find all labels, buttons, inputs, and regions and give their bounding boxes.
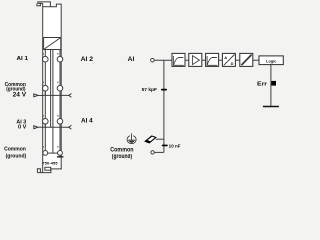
svg-text:AI: AI <box>128 56 135 63</box>
wire stubs rect to row1 <box>45 50 60 57</box>
block limiter 1 <box>172 53 185 66</box>
svg-text:Err: Err <box>257 81 267 87</box>
ground stub under row4 right <box>59 155 61 156</box>
wire AI to block chain <box>154 59 172 61</box>
svg-text:10 nF: 10 nF <box>169 143 181 148</box>
module body outline <box>37 2 62 173</box>
terminal circles row 3 <box>43 119 63 125</box>
svg-text:24 V: 24 V <box>13 91 27 98</box>
block limiter 2 <box>206 53 219 66</box>
svg-text:AI 1: AI 1 <box>17 56 29 62</box>
block A/D converter <box>222 53 235 66</box>
wire row3 to row4 <box>45 124 60 151</box>
shield plate symbol <box>144 135 164 143</box>
24V feed arrow <box>34 94 43 97</box>
common terminal <box>151 151 154 154</box>
svg-text:(ground): (ground) <box>112 154 132 160</box>
svg-text:Common: Common <box>110 147 133 153</box>
wire <box>202 59 206 61</box>
terminal circles row 1 <box>43 56 63 62</box>
svg-text:D: D <box>231 61 234 66</box>
wire <box>185 59 189 61</box>
wire row2 to row3 <box>45 91 60 119</box>
wire common to rail <box>154 151 164 153</box>
ground bar <box>57 156 63 157</box>
wire <box>219 59 223 61</box>
module label rect with diagonal <box>44 38 61 50</box>
wire row1 to row2 <box>45 62 60 86</box>
row4 link wire <box>48 152 58 154</box>
svg-text:AI 4: AI 4 <box>81 118 93 125</box>
terminal number ticks <box>43 53 59 148</box>
internal ground bar <box>263 106 279 108</box>
wire vertical rail <box>163 60 165 152</box>
24V jumper contact fork right <box>69 94 72 98</box>
svg-text:Logic: Logic <box>266 60 276 64</box>
svg-text:A: A <box>224 55 227 60</box>
capacitor 57kpF <box>161 89 167 91</box>
wire logic down <box>270 65 272 107</box>
0V jumper contact fork right <box>69 125 72 129</box>
wire <box>235 59 239 61</box>
svg-text:750-455: 750-455 <box>42 161 57 165</box>
0V feed arrow <box>34 126 43 129</box>
AI terminal <box>151 58 155 62</box>
24V internal line <box>43 91 69 96</box>
internal bus wires <box>51 50 53 154</box>
svg-text:57 kpF: 57 kpF <box>142 87 157 93</box>
svg-text:(ground): (ground) <box>6 154 27 160</box>
capacitor 10nF <box>162 145 168 147</box>
svg-text:AI 2: AI 2 <box>81 56 94 63</box>
block logic <box>259 56 283 65</box>
block serial converter <box>240 53 253 66</box>
module body white underlay <box>43 2 62 173</box>
LED Err <box>271 81 276 86</box>
0V internal line <box>43 124 69 127</box>
earth symbol <box>127 133 136 143</box>
terminal circles row 4 <box>43 151 63 156</box>
svg-text:0 V: 0 V <box>18 125 26 131</box>
wire <box>253 59 259 61</box>
svg-text:Common: Common <box>4 146 26 152</box>
terminal circles row 2 <box>43 85 63 91</box>
block amplifier <box>189 53 202 66</box>
